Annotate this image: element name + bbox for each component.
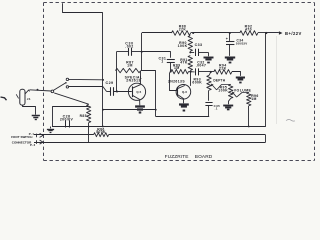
svg-text:1: 1 — [161, 60, 163, 64]
node C30 right junction — [141, 51, 143, 53]
switch throw contact upper — [66, 78, 68, 80]
node Q5 base junction — [116, 91, 118, 93]
wire input network loop — [53, 107, 89, 127]
svg-text:.0047: .0047 — [196, 63, 207, 67]
switch throw contact lower — [66, 86, 68, 88]
svg-text:C29: C29 — [105, 81, 113, 85]
wire volume bottom to ground — [229, 98, 231, 104]
wire volume wiper to R96 — [237, 93, 249, 98]
potentiometer VOLUME R95 — [229, 84, 233, 98]
wire Q6 base leg — [170, 71, 178, 90]
wire switch pole to R85 (diagonal) — [54, 93, 88, 104]
board outline dashed border (FUZZRITE BOARD) — [43, 3, 45, 161]
svg-text:P-1: P-1 — [29, 132, 35, 136]
svg-text:1M: 1M — [251, 97, 257, 101]
wire P-1 line continues — [109, 134, 266, 136]
resistor R87 1M — [115, 68, 140, 72]
node Q6 collector junction — [190, 71, 192, 73]
svg-text:R85: R85 — [80, 114, 87, 118]
svg-text:BOARD: BOARD — [195, 154, 213, 160]
connector P-2 symbol — [36, 140, 38, 144]
svg-text:Q-6: Q-6 — [182, 90, 187, 94]
svg-text:DEPTH: DEPTH — [213, 79, 225, 83]
ground input network — [50, 127, 52, 129]
wire jack tip to switch — [29, 90, 51, 91]
wire depth wiper to volume top — [217, 85, 231, 90]
wire R94 to ground — [232, 72, 241, 76]
connector P-1 symbol — [36, 134, 38, 138]
capacitor C32 .0047 — [195, 68, 197, 75]
resistor R94 22K — [211, 71, 214, 73]
wire rail to B+ node — [258, 32, 267, 34]
wire P-1/P-2 right end — [265, 135, 267, 142]
wire depth bottom to C35 — [208, 90, 210, 101]
input jack J1 body — [20, 89, 25, 105]
wire P-1 line — [34, 134, 94, 136]
resistor R89 1M feedback — [171, 69, 189, 73]
wire Q6 collector to C32 — [191, 71, 195, 73]
resistor R96 1M — [247, 92, 251, 105]
resistor R91 47K — [188, 56, 192, 71]
svg-text:600K: 600K — [192, 80, 202, 84]
svg-text:2N2613S: 2N2613S — [168, 80, 185, 84]
wire P-2 line — [34, 142, 266, 144]
potentiometer DEPTH R93 — [209, 72, 211, 76]
capacitor C34 100/15V electrolytic — [229, 33, 231, 41]
wire B+ rail vertical — [265, 33, 267, 127]
wire R96 bottom to ground bus — [248, 106, 250, 127]
resistor R86 on P-1 line — [94, 133, 109, 137]
switch lever to upper throw — [54, 83, 66, 90]
svg-text:2N2613: 2N2613 — [126, 79, 140, 83]
svg-text:Q-5: Q-5 — [136, 90, 141, 94]
node Q6 base junction — [170, 70, 172, 72]
capacitor C30 .002 — [128, 48, 130, 56]
wire C30 junction to C31 top — [142, 51, 171, 53]
svg-text:100K: 100K — [218, 88, 228, 92]
ground jack sleeve — [32, 115, 40, 117]
svg-text:J1: J1 — [27, 97, 31, 101]
svg-text:FUZZRITE: FUZZRITE — [165, 154, 189, 160]
svg-text:470: 470 — [245, 28, 252, 32]
svg-text:.002: .002 — [125, 45, 133, 49]
wire R85 bottom to P-2 line — [88, 127, 90, 143]
node R85 bottom — [88, 126, 90, 128]
wire rail to R86b — [230, 32, 240, 34]
wire supply rail — [142, 32, 172, 34]
wire collector tap to bypass bus — [103, 109, 156, 111]
capacitor C28 — [65, 121, 67, 128]
svg-text:100K: 100K — [178, 44, 188, 48]
ground volume — [223, 105, 233, 107]
svg-text:200/6V: 200/6V — [60, 118, 74, 122]
svg-text:P-2: P-2 — [30, 143, 36, 147]
svg-text:+: + — [226, 37, 229, 41]
node bypass junction — [102, 79, 104, 81]
ground Q6 emitter — [179, 103, 189, 105]
ground C33 — [208, 52, 210, 56]
node rail R90 junction — [191, 32, 194, 34]
jack plug tick mark — [16, 94, 18, 98]
scan fold line — [276, 36, 278, 124]
wire rail to C34 junction — [193, 32, 230, 34]
capacitor C29 — [110, 87, 112, 96]
wire ground bus — [52, 126, 266, 128]
node jack tip junction — [37, 89, 39, 91]
transistor Q5 — [128, 83, 145, 100]
svg-text:22K: 22K — [219, 67, 227, 71]
resistor R90 100K — [188, 36, 192, 52]
wire R87 left leg — [116, 52, 118, 92]
wire upper throw to bypass line — [69, 78, 103, 80]
capacitor C31 1 — [170, 52, 172, 58]
node R90 bottom / C33 — [189, 51, 191, 53]
B+ supply arrow — [267, 32, 279, 34]
wire bypass vertical bus — [63, 3, 103, 126]
ground C34 — [225, 56, 235, 58]
node C34 junction — [229, 32, 231, 34]
capacitor C33 — [190, 52, 194, 54]
depth wiper arrow — [213, 85, 217, 90]
plug cable stub at left edge — [1, 97, 7, 100]
ground R94 — [236, 77, 245, 79]
svg-text:100/15V: 100/15V — [236, 42, 247, 46]
wire Q5 emitter — [139, 99, 141, 105]
switch SW1 pole contact — [51, 90, 54, 93]
volume wiper arrow — [234, 93, 237, 97]
resistor R85 — [87, 104, 91, 122]
scan smudge — [286, 120, 295, 122]
svg-text:1M: 1M — [127, 64, 133, 68]
wire lower throw to C29 — [69, 87, 107, 92]
wire jack sleeve — [23, 105, 36, 115]
svg-text:B+/22V: B+/22V — [285, 31, 302, 36]
wire supply rail down to C30 junction — [141, 33, 143, 52]
wire Q6 emitter — [183, 99, 185, 103]
jack tip contact — [25, 90, 30, 94]
wire depth cap bus bottom — [156, 116, 209, 118]
capacitor C35 .1 — [205, 102, 212, 104]
svg-text:500K: 500K — [96, 130, 106, 134]
wire collector leg Q5 — [141, 52, 143, 71]
resistor R88 27K — [172, 31, 191, 36]
ground Q5 emitter — [135, 105, 145, 107]
resistor R92 470 — [240, 31, 258, 36]
node depth top junction — [210, 71, 212, 73]
node B+ junction — [265, 32, 267, 34]
svg-text:.1: .1 — [215, 107, 218, 111]
svg-text:27K: 27K — [179, 28, 187, 32]
svg-text:C33: C33 — [195, 43, 203, 47]
svg-text:47K: 47K — [180, 61, 188, 65]
svg-text:VOLUME: VOLUME — [234, 89, 252, 93]
wire Q6 collector leg — [190, 72, 192, 86]
wire Q5 collector to depth cap bus — [141, 71, 156, 117]
svg-text:1M: 1M — [174, 66, 180, 70]
transistor Q6 — [176, 85, 191, 100]
